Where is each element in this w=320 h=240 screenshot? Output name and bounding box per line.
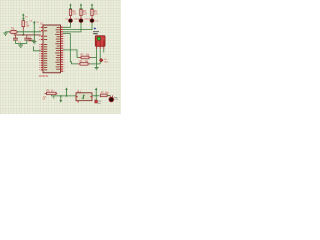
capacitor C1 label — [18, 42, 22, 44]
power terminal near EA pin — [33, 21, 35, 42]
ground under sensor — [94, 67, 98, 70]
resistor R1 labels — [26, 23, 31, 28]
capacitor C2 labels — [28, 38, 33, 43]
resistor R7 labels — [101, 93, 110, 95]
wire reset network to RST pin — [30, 39, 34, 41]
chip U1 value label AT89C51 — [39, 75, 49, 78]
LED D1 — [66, 19, 78, 23]
chip pin number ticks right — [63, 27, 64, 72]
LED D3 — [87, 19, 99, 23]
power net label 5V — [25, 17, 28, 19]
power terminal above R4 — [91, 3, 93, 9]
diode labels — [104, 59, 109, 63]
resistor R7 (horizontal) — [100, 94, 107, 97]
resistor R4 (vertical) — [91, 9, 93, 18]
wire riser to R5 — [77, 57, 79, 59]
diode near sensor legs — [99, 58, 103, 62]
crystal X1 body — [10, 30, 18, 34]
ground stub left of crystal — [3, 32, 9, 36]
buzzer BZ1 — [107, 95, 114, 102]
resistor R4 labels — [94, 11, 99, 16]
power terminal above R2 — [69, 3, 71, 9]
sensor bottom pins — [97, 46, 104, 49]
chip right-side pins — [61, 27, 63, 72]
wire relay to right rail — [92, 95, 100, 97]
chip U1 reference label — [40, 21, 44, 25]
relay RL1 body — [76, 93, 92, 101]
wire (dark) crystal row to XTAL2 pin — [14, 34, 41, 36]
battery terminal at rail bottom — [95, 100, 102, 105]
capacitor C3 label — [32, 40, 36, 42]
relay pins — [76, 96, 92, 103]
wire to pin P1 — [34, 46, 41, 51]
power label — [29, 21, 39, 25]
chip left-side pin name texts — [44, 27, 47, 70]
relay RL1 labels — [77, 91, 82, 93]
wire D2 to chip — [63, 23, 81, 32]
resistor R6 labels — [80, 61, 90, 63]
wire chip to R6 (via riser) — [63, 34, 78, 64]
capacitor C1 plates — [13, 35, 18, 44]
sensor internal pin strips — [96, 41, 104, 47]
sensor leg wires — [97, 49, 104, 67]
wire R6 to sensor middle leg — [91, 63, 101, 65]
power-down arrow terminal — [60, 96, 63, 103]
sensor U2 (LM35) body — [95, 36, 105, 47]
crystal X1 label — [11, 27, 15, 30]
chip U1 body — [43, 25, 61, 73]
net label (blue) — [94, 28, 96, 29]
buzzer BZ1 labels — [114, 97, 118, 101]
sensor name text — [94, 34, 99, 36]
resistor R3 (vertical) — [80, 9, 82, 18]
junction dots bottom wire — [60, 95, 67, 96]
riser wire at x77 from chip pin — [63, 50, 77, 58]
wire D1 to chip — [63, 23, 71, 27]
svg-text:bat: bat — [98, 102, 101, 105]
resistor R5 (horizontal) — [79, 56, 92, 59]
wire joining caps to ground — [16, 43, 27, 45]
resistor R3 labels — [83, 11, 88, 16]
capacitor C2 plates — [24, 35, 29, 44]
capacitor C3 plates — [29, 39, 32, 41]
resistor R2 labels — [72, 11, 77, 16]
chip left-side pins — [41, 27, 43, 71]
resistor R8 body and base label — [43, 92, 58, 100]
collector wire to relay — [51, 95, 77, 99]
power terminal crossbars — [22, 8, 94, 18]
right power rail with up arrow — [95, 87, 97, 100]
power terminal above relay wire — [65, 87, 67, 96]
wire D3 to chip — [63, 23, 92, 30]
wire crystal to XTAL1 pin — [17, 31, 40, 33]
wire R1 to RST row — [22, 31, 24, 35]
resistor R5 labels — [81, 54, 91, 56]
LED D2 — [76, 19, 88, 23]
resistor R1 (vertical, reset pull) — [22, 21, 25, 31]
svg-text:U1: U1 — [40, 21, 44, 25]
chip pin number ticks left — [39, 27, 40, 70]
ground under caps — [18, 44, 23, 48]
resistor R6 (horizontal) — [78, 63, 91, 66]
resistor R2 (vertical) — [69, 9, 71, 18]
ground near chip left — [32, 42, 36, 44]
wire R5 to sensor leg — [92, 57, 97, 59]
power terminal above R3 — [80, 3, 82, 9]
background grid — [0, 0, 121, 114]
chip right-side pin name texts — [55, 27, 60, 70]
net text block — [93, 31, 99, 34]
power terminal (up arrow) feeding R1 — [22, 13, 24, 21]
svg-text:AT89C51: AT89C51 — [39, 75, 49, 78]
junction dot RST row — [23, 34, 25, 36]
resistor R8 labels — [47, 91, 55, 93]
